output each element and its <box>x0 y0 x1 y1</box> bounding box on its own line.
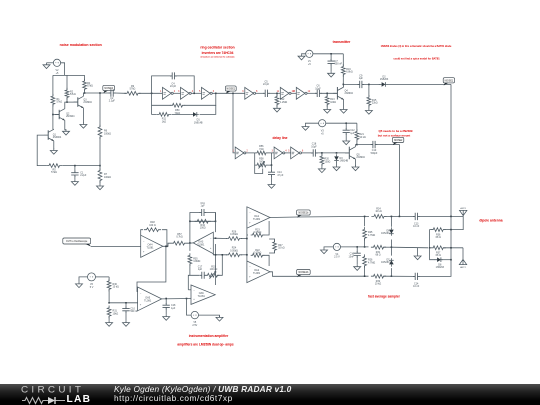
wire Q1 collector <box>52 128 55 130</box>
node junction R36/NOISE1 col <box>450 229 452 231</box>
node junction C14 tap <box>271 164 273 166</box>
feedback R34 wire <box>190 220 216 222</box>
voltage source V2 <box>53 59 60 75</box>
svg-text:TL081: TL081 <box>197 243 205 246</box>
capacitor C5 <box>263 81 270 98</box>
capacitor C14 sampler <box>413 273 420 288</box>
wire OA3 minus out <box>213 237 227 239</box>
svg-text:Q5 needs to be a 2N2369: Q5 needs to be a 2N2369 <box>378 129 412 133</box>
svg-text:0.05kΩ: 0.05kΩ <box>254 252 262 255</box>
svg-text:amplifiers are LM358N dual op-: amplifiers are LM358N dual op- amps <box>177 342 234 346</box>
wire R24s to C13 <box>384 215 414 217</box>
wire R1 down to Q1 <box>52 104 54 129</box>
wire R13 top <box>326 93 328 96</box>
svg-text:NOISE3: NOISE3 <box>104 88 113 90</box>
wire Q3 collector <box>83 93 84 96</box>
wire rail to R2 <box>66 75 68 90</box>
resistor R47 <box>273 240 285 253</box>
svg-text:1N5263: 1N5263 <box>381 232 390 235</box>
ground at R12 <box>274 105 281 112</box>
diode D2 <box>379 76 389 87</box>
capacitor C11 <box>200 202 207 216</box>
capacitor C10 input <box>122 303 138 313</box>
resistor R4 <box>83 79 93 92</box>
capacitor C6 <box>315 85 322 97</box>
ground at V3 <box>302 123 319 130</box>
wire C9 to D2 <box>363 83 380 85</box>
wire R56 R58 branch <box>255 153 257 165</box>
op-amp OA2 <box>247 261 270 283</box>
resistor R16 <box>341 64 352 76</box>
capacitor C12 <box>343 123 356 135</box>
resistor R31 divider <box>107 306 118 319</box>
svg-text:NOISE1: NOISE1 <box>227 89 236 91</box>
wire R32 to C14 <box>384 275 415 277</box>
resistor R20 <box>320 154 330 166</box>
wire box right down <box>215 213 217 286</box>
ground at Q3 <box>80 123 87 129</box>
node junction D3 <box>336 152 338 154</box>
resistor R56 <box>256 145 267 155</box>
svg-text:2N3904: 2N3904 <box>83 101 92 104</box>
wire divider to OA5 <box>109 302 138 304</box>
node junction C18b <box>165 298 167 300</box>
node junction col bot <box>246 254 248 256</box>
svg-text:2N3904: 2N3904 <box>345 92 354 95</box>
wire R37 right <box>443 247 463 249</box>
wire U5-U6 <box>291 92 296 94</box>
section label: noise modulation section <box>60 43 102 47</box>
wire OA2 out <box>270 272 297 277</box>
wire U1-U2 <box>173 92 180 94</box>
node label NOISE1 ring <box>225 86 236 94</box>
ground at R31 <box>106 321 113 327</box>
node label NOISE2 <box>392 137 403 145</box>
wire R31 bottom <box>108 316 110 321</box>
wire Q5 emitter <box>355 159 357 165</box>
wire R24b to OA2 <box>241 254 247 256</box>
section label: transmitter <box>333 40 351 44</box>
svg-text:24 pF: 24 pF <box>263 83 270 86</box>
svg-text:10µF: 10µF <box>311 145 317 148</box>
wire C6 to Q4 <box>321 92 338 94</box>
wire R26 to OA1 <box>241 238 247 240</box>
svg-text:1µF: 1µF <box>171 307 176 310</box>
svg-text:2.2µF: 2.2µF <box>80 174 87 177</box>
resistor R23 <box>251 229 265 237</box>
ground at Q5 <box>352 165 359 171</box>
wire OA3 plus <box>213 254 227 255</box>
svg-text:delay line: delay line <box>272 136 287 140</box>
node junction main/R6 <box>99 92 101 94</box>
wire main to R6 <box>99 93 101 127</box>
node label OUT to Oscilloscope <box>63 238 91 247</box>
node junction divider <box>108 302 110 304</box>
svg-text:1N5263: 1N5263 <box>380 78 389 81</box>
resistor R34 <box>195 219 211 229</box>
svg-text:500 nF: 500 nF <box>335 63 343 66</box>
node junction V5 tap <box>186 298 188 300</box>
node junction R4/main <box>84 92 86 94</box>
node label NOISE3 <box>103 85 115 93</box>
svg-text:0.05kΩ: 0.05kΩ <box>254 231 262 234</box>
wire Q2 base <box>53 114 59 116</box>
resistor R48 <box>144 221 161 231</box>
logo resistor-diode symbol <box>22 396 72 405</box>
svg-text:NOISE1: NOISE1 <box>445 80 454 82</box>
wire main left segment <box>85 92 110 94</box>
inverter U2 <box>178 87 194 99</box>
svg-text:1N5263: 1N5263 <box>436 266 445 269</box>
voltage source V6 <box>88 273 96 289</box>
svg-text:10 nF: 10 nF <box>413 225 420 228</box>
ground at Q1 <box>50 149 57 155</box>
node junction D6 bottom <box>391 246 393 248</box>
resistor R15 <box>367 95 378 107</box>
svg-text:instrumentation amplifier: instrumentation amplifier <box>189 334 229 338</box>
wire R26s to bottom <box>364 266 366 277</box>
wire diode column <box>390 216 392 276</box>
svg-text:1N914B: 1N914B <box>340 160 349 163</box>
svg-text:dipole antenna: dipole antenna <box>479 218 502 222</box>
wire V5 drop <box>187 299 192 316</box>
node junction NOISE1 bottom <box>450 216 452 218</box>
svg-text:74Ω: 74Ω <box>259 148 264 151</box>
node junction box left <box>189 221 191 223</box>
inverter U8 <box>272 147 288 159</box>
wire R35 bottom <box>190 264 200 276</box>
wire U9 to C18 <box>301 152 313 154</box>
resistor R35 <box>188 253 201 266</box>
svg-text:NOISE2: NOISE2 <box>394 140 403 142</box>
ground at V4 <box>321 247 334 254</box>
svg-text:inverters are 74HC04: inverters are 74HC04 <box>202 51 234 55</box>
transistor Q2 <box>55 109 75 121</box>
wire Q4 emitter <box>343 100 345 108</box>
svg-text:100 Ω: 100 Ω <box>149 224 156 227</box>
wire Q1 base down to R5 <box>37 135 46 166</box>
wire V4 wire right <box>391 246 428 249</box>
diode D3 <box>334 154 348 163</box>
wire R36 branch <box>430 230 434 248</box>
ground at C10 input <box>123 312 130 326</box>
node junction OA3 plus <box>215 254 217 256</box>
capacitor C4 <box>170 72 177 88</box>
capacitor C7 <box>328 54 343 66</box>
inverter U1 <box>160 87 176 99</box>
wire NOISE1 ring to delay <box>233 93 235 153</box>
node junction D7 bottom <box>391 275 393 277</box>
node junction C10b <box>125 302 127 304</box>
wire Q3 base <box>67 101 78 103</box>
svg-text:0.05kΩ: 0.05kΩ <box>230 249 238 252</box>
resistor R37 <box>431 246 446 257</box>
wire box left down <box>189 221 191 251</box>
wire U6 to C6 <box>307 92 317 94</box>
node junction D8 right <box>450 259 452 261</box>
svg-text:10 nF: 10 nF <box>413 285 420 288</box>
ground at C7 <box>328 65 335 77</box>
resistor R30 <box>107 279 119 292</box>
ground at Q2 <box>63 129 70 135</box>
svg-text:noise modulation section: noise modulation section <box>60 43 102 47</box>
svg-text:57kΩ: 57kΩ <box>70 93 76 96</box>
op-amp OA5 <box>138 287 162 311</box>
wire R9 to ring <box>139 92 162 94</box>
op-amp OA1 <box>247 207 270 228</box>
svg-text:3.9MΩ: 3.9MΩ <box>193 260 200 263</box>
node label NOISE1b top <box>297 210 311 218</box>
section label: fast average sampler <box>368 295 400 299</box>
wire OA6 minus <box>188 275 191 290</box>
node junction C12 <box>345 122 347 124</box>
wire V3 rail <box>326 122 357 124</box>
feedback box top wire <box>190 213 216 222</box>
resistor R13 <box>325 94 336 106</box>
resistor R26 sampler <box>363 254 376 267</box>
svg-text:100kΩ: 100kΩ <box>104 132 111 135</box>
transistor Q1 <box>44 129 62 141</box>
svg-text:10kΩ: 10kΩ <box>113 312 119 315</box>
svg-text:57kΩ: 57kΩ <box>51 171 57 174</box>
wire D8 branch <box>430 248 435 260</box>
svg-text:5 V: 5 V <box>90 286 94 289</box>
resistor R57 <box>171 233 187 245</box>
svg-text:100Ω: 100Ω <box>330 101 336 104</box>
wire V2 to rail <box>61 63 65 76</box>
svg-text:6.8kΩ: 6.8kΩ <box>346 71 353 74</box>
svg-text:TL081: TL081 <box>144 299 152 302</box>
ground at V5b <box>216 315 223 321</box>
wire rail to R21 <box>356 123 358 131</box>
transistor Q3 <box>74 96 93 108</box>
node junction col top <box>246 238 248 240</box>
wire rail to R16 <box>342 54 344 67</box>
svg-text:ANT1: ANT1 <box>460 207 466 210</box>
wire R2 to base wire <box>66 98 68 103</box>
svg-text:4.7MΩ: 4.7MΩ <box>368 261 375 264</box>
svg-text:74Ω: 74Ω <box>259 160 264 163</box>
section label: dipole antenna <box>479 218 502 222</box>
transistor Q5 <box>345 147 365 160</box>
svg-text:1µF: 1µF <box>350 132 355 135</box>
op-amp OA4 <box>141 235 163 257</box>
wire OA2 to sampler <box>297 275 369 277</box>
svg-text:68 Ω: 68 Ω <box>375 254 380 257</box>
ground at V1 <box>298 54 306 60</box>
resistor R5 <box>46 164 62 174</box>
ground at C18b <box>163 309 170 321</box>
resistor R21 <box>355 129 366 141</box>
antenna ANT1 <box>460 207 467 216</box>
node junction R37/NOISE1 col <box>450 247 452 249</box>
svg-text:0.7kΩ: 0.7kΩ <box>176 236 183 239</box>
capacitor C18 <box>311 143 318 157</box>
wire U7 out <box>246 152 255 154</box>
wire OA5 out <box>162 298 191 300</box>
svg-text:NOISE1b: NOISE1b <box>298 213 309 215</box>
antenna ANT2 <box>459 248 466 269</box>
node junction R20 <box>321 152 323 154</box>
node junction C1 <box>74 165 76 167</box>
svg-text:10 kΩ: 10 kΩ <box>375 283 382 286</box>
voltage source V1 <box>306 50 313 66</box>
CircuitLab logo text <box>21 385 84 395</box>
svg-text:1µF: 1µF <box>359 77 364 80</box>
svg-text:0.05kΩ: 0.05kΩ <box>230 233 238 236</box>
wire U8 to U9 <box>285 152 291 154</box>
wire rail to R4 <box>84 75 86 81</box>
CircuitLab logo LAB <box>67 394 92 405</box>
node junction feedback right <box>193 93 195 95</box>
svg-text:2.5V: 2.5V <box>192 324 197 327</box>
node junction noise2 col <box>399 216 401 218</box>
wire R31s to diode col <box>384 246 392 248</box>
svg-text:57kΩ: 57kΩ <box>87 85 93 88</box>
resistor R6 <box>98 125 111 139</box>
svg-text:22kΩ: 22kΩ <box>372 102 378 105</box>
node junction R33 riser <box>222 254 224 256</box>
inverter U4 <box>242 87 258 99</box>
svg-text:10µF: 10µF <box>315 87 321 90</box>
inverter U9 <box>288 147 304 159</box>
svg-text:68 Ω: 68 Ω <box>436 236 441 239</box>
wire Q1 emitter <box>53 141 55 149</box>
wire R57 to OA3 <box>187 242 193 244</box>
wire U3 out <box>212 92 245 94</box>
wire R23 feed <box>247 234 248 236</box>
wire R47 bottom <box>269 250 275 253</box>
resistor R25 <box>363 227 376 240</box>
wire C2 to R9 <box>114 92 126 94</box>
resistor R22 <box>251 249 265 257</box>
svg-text:57kΩ: 57kΩ <box>57 101 63 104</box>
wire C14 to corner <box>419 248 451 277</box>
wire R20 top <box>321 153 323 156</box>
wire R23 up <box>264 221 270 235</box>
node junction C16 <box>356 246 358 248</box>
wire NOISE1 vertical lower <box>450 216 452 247</box>
svg-text:ANT2: ANT2 <box>460 266 466 269</box>
ground at R13 <box>324 105 331 114</box>
wire OA4 down to OA5 <box>137 246 166 291</box>
wire C10 to NOISE2 <box>376 145 399 217</box>
resistor R24 sampler <box>371 208 386 219</box>
svg-text:TL081: TL081 <box>198 295 206 298</box>
capacitor C1 <box>71 166 87 178</box>
node junction R25 bottom <box>364 246 366 248</box>
wire V5b to ground <box>199 315 220 317</box>
node junction R1/Q2 <box>52 114 54 116</box>
ground at R37 wire <box>414 248 421 260</box>
op-amp OA3 <box>193 232 213 254</box>
svg-text:transmitter: transmitter <box>333 40 351 44</box>
wire V4 rail <box>341 246 369 248</box>
wire R33 riser <box>218 255 223 275</box>
diode D7 sampler <box>381 258 394 266</box>
wire right column vertical <box>246 222 248 273</box>
svg-text:TL081: TL081 <box>253 218 261 221</box>
op-amp OA6 <box>191 285 215 304</box>
svg-text:500 nF: 500 nF <box>130 310 138 313</box>
wire tap to C10 <box>357 144 373 146</box>
node junction R6 bottom <box>99 165 101 167</box>
feedback loop top wire <box>152 76 195 93</box>
svg-text:OUT to Oscilloscope: OUT to Oscilloscope <box>66 240 88 243</box>
svg-text:100kΩ: 100kΩ <box>104 176 111 179</box>
inverter U3 <box>199 87 215 99</box>
wire R30 to junction <box>108 289 110 303</box>
svg-text:2.2µF: 2.2µF <box>109 100 116 103</box>
node junction collector tap <box>343 84 345 86</box>
node label NOISE1b bottom <box>297 270 311 278</box>
resistor R12 <box>275 94 287 106</box>
inverter U6 <box>292 87 310 99</box>
node junction NOISE1 tap <box>232 93 234 95</box>
wire Q2 collector <box>65 102 67 109</box>
resistor R32 sampler <box>371 274 386 285</box>
svg-text:10 kΩ: 10 kΩ <box>113 286 120 289</box>
ground at C12 <box>343 134 350 145</box>
wire +5 rail <box>53 74 85 76</box>
svg-text:10 kΩ: 10 kΩ <box>359 136 366 139</box>
svg-text:24 pF: 24 pF <box>170 85 177 88</box>
ground at R15 <box>365 105 372 114</box>
ground at C14 <box>268 176 275 189</box>
wire NOISE1 vertical <box>450 84 452 216</box>
wire collector tap to C9 <box>343 83 359 85</box>
ground at C1 <box>71 176 78 185</box>
wire OA4 feedback R48 <box>141 230 167 247</box>
capacitor C16 <box>349 247 361 258</box>
node junction R15 <box>368 84 370 86</box>
diode D1 <box>190 112 203 124</box>
capacitor C18b <box>163 299 177 310</box>
svg-text:10 kΩ: 10 kΩ <box>375 210 382 213</box>
voltage source V3 <box>319 120 326 136</box>
wire Q5 collector <box>356 145 357 147</box>
resistor R24b <box>226 247 242 257</box>
ground at D3 <box>333 162 340 170</box>
node junction OA3 in <box>189 242 191 244</box>
svg-text:TL081: TL081 <box>253 272 261 275</box>
svg-text:NOISE1b: NOISE1b <box>298 272 309 274</box>
node junction C7 <box>330 53 332 55</box>
wire R12 top <box>276 93 278 96</box>
wire U4 to C5 <box>256 92 264 94</box>
wire Q2 emitter <box>65 120 66 130</box>
section label: delay line <box>272 136 287 140</box>
capacitor C14 <box>268 165 284 177</box>
footer url <box>114 393 233 403</box>
svg-text:TL081: TL081 <box>146 247 154 250</box>
svg-text:ring oscillator section: ring oscillator section <box>200 46 234 50</box>
feedback wire R11 D1 <box>152 105 216 114</box>
node junction R2 bottom <box>66 101 68 103</box>
wire Q3 emitter <box>82 108 84 123</box>
wire U2-U3 <box>191 92 201 94</box>
resistor R7 <box>98 168 111 182</box>
svg-text:1µF: 1µF <box>201 205 206 208</box>
node junction R26s bottom <box>364 275 366 277</box>
svg-text:2N3904: 2N3904 <box>66 115 75 118</box>
diode D6 sampler <box>381 227 394 235</box>
capacitor C10 <box>371 141 378 155</box>
wire rail to R1 <box>52 75 54 96</box>
wire R47 top <box>269 239 275 242</box>
node junction R36 left <box>429 247 431 249</box>
note: Q5 2N2369 note <box>378 129 413 138</box>
